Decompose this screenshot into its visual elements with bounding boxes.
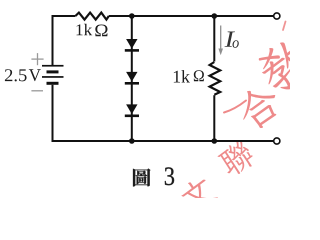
diode D1 xyxy=(125,39,139,52)
caption number 3 xyxy=(165,167,174,185)
watermark fragment stroke (top right corner fleck) xyxy=(283,22,286,31)
diode D2 xyxy=(125,72,139,85)
wire right branch: resistor R2 to bottom junction xyxy=(213,95,215,141)
label 1k (resistor R2) xyxy=(174,70,190,82)
junction dot bottom right xyxy=(212,138,218,144)
diode D3 xyxy=(125,104,139,117)
label o (current subscript, italic) xyxy=(232,40,238,47)
wire top: resistor R1 to right terminal xyxy=(109,15,274,17)
watermark character 教 (top right, partially clipped) xyxy=(252,33,318,98)
wire left: top corner down to battery xyxy=(52,15,54,65)
wire left: battery down to bottom corner xyxy=(52,85,54,142)
label 1k (resistor R1) xyxy=(77,24,93,35)
junction dot top middle xyxy=(129,13,135,19)
wire right branch: top junction to resistor R2 xyxy=(213,16,215,62)
label 2.5 (battery value) xyxy=(5,69,27,81)
wire bottom: left corner to right terminal xyxy=(53,140,274,142)
watermark character 聯 xyxy=(215,138,257,180)
plus sign (battery positive) xyxy=(31,53,43,65)
junction dot top right xyxy=(212,13,218,19)
battery V1 2.5V (two cells) xyxy=(42,65,64,85)
wire middle branch (diode string) xyxy=(131,16,133,141)
junction dot bottom middle xyxy=(129,138,135,144)
label I (current symbol, italic) xyxy=(225,32,235,47)
label V (battery unit) xyxy=(29,69,41,81)
caption 圖 (figure) xyxy=(133,168,151,186)
watermark stroke (long tail of 合) xyxy=(224,101,246,113)
watermark character 合 xyxy=(232,80,287,134)
minus sign (battery negative) xyxy=(31,90,43,92)
terminal (open circle, top right) xyxy=(274,13,280,19)
label Ω (resistor R1) xyxy=(95,25,107,37)
resistor R2 1kΩ (vertical zigzag) xyxy=(210,62,221,95)
terminal (open circle, bottom right) xyxy=(274,138,280,144)
current arrow Io (gray, pointing down) xyxy=(218,26,223,56)
label Ω (resistor R2) xyxy=(194,70,204,81)
resistor R1 1kΩ (horizontal zigzag) xyxy=(75,13,108,20)
watermark character 文 (bottom left, clipped) xyxy=(177,174,219,216)
wire top: left corner to resistor R1 xyxy=(53,15,76,17)
